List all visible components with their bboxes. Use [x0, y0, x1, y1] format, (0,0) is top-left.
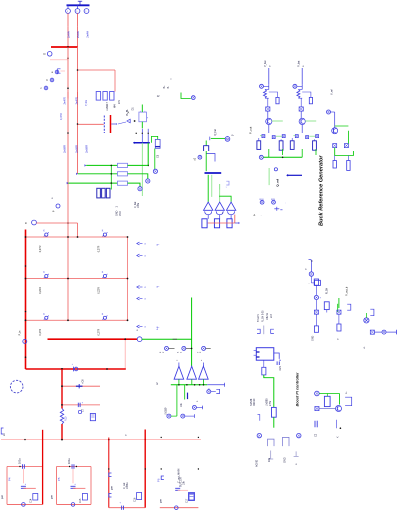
node V2: [146, 179, 150, 183]
node P3V: [56, 204, 60, 208]
wire: [347, 131, 349, 144]
tap mark 3a: [109, 473, 112, 477]
node P_in flag: [32, 220, 37, 225]
svg-text:5: 5: [178, 351, 180, 353]
svg-text:100u: 100u: [138, 202, 140, 208]
resistor Re2: [279, 141, 283, 150]
trim marks: [274, 208, 279, 210]
wire: [207, 175, 209, 202]
wire: [263, 360, 265, 367]
power rail VCC bus bar: [67, 4, 90, 6]
wire: [273, 417, 275, 428]
svg-text:100u: 100u: [68, 458, 71, 464]
capacitor C17: [175, 487, 180, 489]
svg-text:o: o: [145, 256, 147, 258]
svg-text:in: in: [25, 221, 28, 225]
svg-text:o: o: [145, 287, 147, 289]
svg-text:o: o: [125, 434, 128, 436]
wire: [263, 326, 265, 335]
svg-text:0,27R: 0,27R: [97, 245, 100, 252]
junction: [134, 120, 136, 122]
capacitor C14: [21, 485, 26, 487]
wire block2 left rail: [56, 467, 58, 505]
svg-text:o: o: [170, 79, 172, 81]
wire: [335, 148, 354, 156]
wire: [114, 70, 116, 92]
node in: [260, 84, 264, 88]
wire: [264, 375, 274, 408]
svg-text:Q_bat: Q_bat: [214, 129, 217, 136]
wire: [78, 173, 118, 175]
wire: [72, 469, 74, 484]
ground rail thin: [1, 439, 201, 441]
wire: [268, 84, 270, 89]
node N1: [47, 52, 52, 57]
pad P1: [202, 219, 207, 228]
svg-text:C23: C23: [280, 366, 282, 371]
node cmp in 1: [165, 346, 169, 350]
wire: [124, 339, 126, 369]
diode D1: [127, 119, 130, 123]
svg-text:K: K: [43, 272, 45, 274]
svg-text:P_bat: P_bat: [297, 60, 300, 67]
node c5: [181, 414, 185, 418]
svg-text:JP1: JP1: [118, 99, 121, 104]
wire stub: [178, 379, 180, 385]
box C14 label: [33, 494, 38, 501]
wire: [171, 415, 177, 417]
node c4: [167, 414, 171, 418]
node in: [293, 84, 297, 88]
emitter squares: [295, 135, 298, 138]
wire: [219, 196, 231, 202]
resistor R20: [272, 407, 277, 417]
wire block2 top rail: [57, 466, 92, 468]
transistor Q8: [364, 318, 369, 323]
wire block1 left rail: [6, 467, 8, 505]
svg-text:o: o: [305, 268, 308, 270]
capacitor C16: [121, 506, 123, 510]
svg-text:P_in: P_in: [19, 330, 22, 335]
svg-text:pwr: pwr: [160, 499, 163, 503]
wire: [319, 408, 335, 410]
svg-text:P5: P5: [57, 477, 61, 481]
resistor R7: [118, 163, 128, 167]
node w1: [315, 391, 320, 396]
wire: [274, 353, 279, 359]
tap mark 4a: [161, 476, 164, 480]
transistor: [266, 118, 272, 124]
wire: [374, 331, 381, 333]
net label node C: [44, 86, 48, 90]
wire: [184, 385, 186, 400]
node flag X1: [198, 155, 202, 159]
wire: [173, 338, 177, 340]
net arrow gate g2: [137, 254, 140, 257]
node jack sleeve: [225, 137, 230, 142]
wire: [62, 404, 100, 406]
wire: [334, 112, 336, 128]
svg-text:x2: x2: [193, 157, 196, 160]
box C17 label: [189, 494, 194, 501]
junction: [147, 165, 149, 167]
svg-text::: :: [261, 215, 262, 217]
component fuse F1: [204, 146, 209, 151]
wire: [147, 143, 149, 166]
node m1: [309, 272, 313, 276]
wire: [268, 125, 270, 133]
svg-text:C15: C15: [80, 498, 82, 503]
wire: [315, 300, 317, 311]
net arrow gate g1: [137, 242, 140, 245]
junction: [25, 356, 27, 358]
wire: [301, 149, 303, 157]
wire: [141, 122, 143, 129]
node cmp in 2: [182, 346, 186, 350]
wire main input feed: [51, 46, 78, 48]
resistor Re1: [257, 141, 261, 150]
bracket u2: [283, 437, 290, 446]
wire: [77, 26, 79, 47]
svg-text:R2010: R2010: [253, 398, 256, 406]
junction row: [108, 468, 109, 469]
svg-text:LM1117: LM1117: [106, 102, 109, 111]
wire: [268, 168, 270, 185]
resistor Re1: [290, 141, 294, 150]
resistor divider zig: [297, 90, 300, 99]
svg-text:x1: x1: [3, 433, 6, 436]
wire: [315, 314, 317, 326]
svg-text:0,27R: 0,27R: [39, 245, 42, 252]
node cmp in 3: [202, 346, 206, 350]
wire: [206, 154, 215, 162]
net arrow gate g5: [137, 325, 140, 328]
svg-text:AGND: AGND: [256, 460, 259, 467]
svg-text:2x470: 2x470: [63, 96, 67, 104]
resistor R21: [324, 396, 330, 406]
junction: [67, 132, 69, 134]
resistor Re2: [313, 141, 317, 150]
transistor Q9: [336, 406, 342, 412]
svg-text:K: K: [43, 231, 45, 233]
wire: [78, 69, 116, 71]
svg-text:VCC: VCC: [119, 211, 122, 216]
bracket w: [345, 397, 352, 406]
capacitor C11 on rail: [71, 464, 73, 468]
svg-text:o: o: [145, 299, 147, 301]
svg-text:p: p: [52, 210, 55, 212]
pad P2: [214, 219, 219, 228]
svg-text:LM339: LM339: [164, 407, 167, 415]
net arrow gate g3: [137, 286, 140, 289]
capacitor cmp: [187, 393, 189, 400]
node gnd1: [22, 503, 26, 507]
pad P3: [227, 219, 232, 228]
wire: [219, 215, 221, 219]
wire: [67, 99, 69, 185]
diode D5 jack: [226, 202, 235, 210]
diode D2 on bus: [74, 367, 78, 371]
svg-text:o: o: [302, 65, 305, 67]
node flag vr: [327, 110, 331, 114]
junction: [67, 57, 69, 59]
svg-text:A: A: [128, 111, 130, 115]
svg-text:o: o: [201, 359, 203, 361]
gnd u2: [295, 451, 297, 456]
node t2: [297, 433, 301, 437]
svg-text:2xAA: 2xAA: [76, 31, 80, 38]
svg-text:o~: o~: [232, 135, 235, 137]
wire: [268, 149, 270, 157]
svg-text:1: 1: [116, 206, 119, 208]
resistor Rm: [315, 280, 321, 285]
net label node B: [50, 78, 54, 82]
svg-text:7,4m: 7,4m: [84, 99, 88, 106]
wire: [61, 369, 63, 409]
node gnd4: [175, 506, 179, 510]
junction: [67, 87, 69, 89]
wire: [211, 175, 213, 197]
svg-text:C_bat: C_bat: [134, 201, 137, 208]
svg-text:pwr: pwr: [110, 486, 113, 490]
svg-text:12: 12: [157, 96, 160, 98]
capacitor C10 on rail: [21, 464, 23, 468]
svg-text:10k: 10k: [181, 402, 183, 407]
wire feed block1: [42, 430, 44, 467]
node gnd2: [71, 503, 75, 507]
svg-text:+: +: [82, 403, 84, 405]
diode D3 jack: [204, 202, 213, 210]
svg-text:a~: a~: [157, 286, 160, 289]
box C15 label: [82, 494, 87, 501]
capacitor C6: [78, 384, 80, 388]
junction: [77, 69, 79, 71]
wire: [110, 165, 112, 189]
svg-text:o: o: [145, 327, 147, 329]
svg-text:10u: 10u: [268, 457, 271, 462]
wire: [128, 174, 148, 179]
op-amp A3: [199, 366, 209, 379]
resistor Rb1: [314, 279, 318, 285]
wire: [272, 120, 283, 122]
wire: [86, 164, 117, 166]
svg-text:1: 1: [76, 11, 78, 13]
wire: [337, 304, 339, 312]
wire cmp bus: [171, 384, 207, 386]
net arrow out: [235, 222, 238, 224]
node c1: [207, 390, 211, 394]
net arrow gate g4: [137, 297, 140, 300]
battery BT1 negative plate: [103, 116, 105, 134]
tap t: [258, 415, 260, 421]
resistor Rr1: [333, 161, 336, 169]
junction: [77, 123, 79, 125]
svg-text:+: +: [25, 484, 27, 486]
wire: [336, 420, 338, 428]
svg-text:2xAA: 2xAA: [85, 31, 89, 38]
wire: [77, 13, 79, 26]
svg-text:OUT_EN: OUT_EN: [180, 477, 182, 487]
svg-text:6: 6: [160, 351, 162, 353]
bracket mark: [226, 181, 229, 185]
wire: [77, 47, 79, 99]
svg-text:o: o: [51, 197, 54, 199]
svg-text:Buck Reference Generator: Buck Reference Generator: [319, 155, 325, 226]
wire: [62, 385, 100, 387]
wire block1 bottom rail: [7, 503, 43, 505]
wire grid right rail: [127, 237, 129, 320]
capacitor C23: [276, 361, 278, 365]
wire lower bus: [26, 368, 126, 370]
connector J3 pin: [84, 9, 89, 14]
svg-text:o: o: [197, 400, 199, 402]
wire ref bus: [263, 156, 302, 158]
wire: [176, 385, 178, 416]
bracket c1: [216, 389, 219, 393]
svg-text:0,22R: 0,22R: [39, 287, 42, 294]
wire: [234, 215, 236, 223]
supply bar mid: [205, 172, 222, 174]
svg-text:1: 1: [67, 11, 69, 13]
svg-text:pwr: pwr: [51, 495, 54, 499]
svg-text:o: o: [145, 244, 147, 246]
wire: [301, 68, 303, 84]
wire: [211, 137, 225, 139]
svg-text:Boost PI controller: Boost PI controller: [296, 372, 300, 406]
connector J4 pads: [97, 188, 101, 198]
svg-text:b: b: [47, 79, 49, 82]
svg-text:1: 1: [180, 351, 182, 353]
resistor Rr3: [337, 324, 341, 331]
wire: [68, 182, 117, 184]
resistor Rb2: [314, 326, 318, 332]
node t1: [257, 433, 261, 437]
svg-text:100u: 100u: [18, 458, 21, 464]
node batt sense flag: [191, 96, 195, 100]
svg-text:+: +: [74, 484, 76, 486]
svg-text:.o.: .o.: [363, 346, 366, 349]
wire: [300, 111, 302, 118]
node main out: [137, 337, 142, 342]
wire: [205, 141, 207, 146]
svg-text:+: +: [120, 503, 122, 505]
node qr2: [272, 200, 276, 204]
node ref out: [259, 155, 263, 159]
bracket r1: [347, 304, 351, 310]
battery BT1 positive plate: [110, 115, 112, 133]
svg-text:2.5V: 2.5V: [269, 401, 272, 406]
square xr1: [337, 310, 341, 314]
svg-text:o: o: [295, 463, 298, 465]
resistor R9: [118, 181, 128, 185]
junction: [25, 311, 27, 313]
wire: [386, 331, 397, 333]
wire: [36, 222, 77, 224]
wire: [205, 151, 207, 171]
svg-text:C5: C5: [157, 154, 160, 158]
frame ref box: [90, 414, 95, 421]
svg-text:o2: o2: [157, 382, 159, 385]
svg-text:+: +: [72, 363, 74, 365]
svg-text:K: K: [43, 314, 45, 316]
net label node A: [55, 70, 59, 74]
wire block2 bottom rail: [57, 503, 92, 505]
svg-text:R_SH: R_SH: [327, 288, 329, 294]
wire: [128, 183, 141, 186]
net arrow: [67, 182, 69, 184]
capacitor C5: [155, 139, 160, 148]
output block 3: [108, 438, 110, 508]
jumper JP1 pads: [96, 92, 100, 101]
wire: [50, 59, 68, 61]
svg-text:c: c: [41, 87, 43, 90]
junction: [191, 348, 193, 350]
square xr2: [370, 330, 374, 334]
wire: [301, 125, 303, 133]
diode square q7a: [333, 144, 337, 148]
svg-text:7: 7: [197, 351, 199, 353]
svg-text:2xAA: 2xAA: [66, 31, 70, 38]
node b1: [314, 295, 318, 299]
svg-text:-: -: [309, 284, 310, 286]
op-amp A1: [174, 366, 184, 379]
svg-text:A.: A.: [254, 214, 257, 217]
wire grid row 2: [26, 278, 128, 280]
wire: [142, 338, 192, 340]
svg-text:a: a: [52, 71, 54, 74]
bracket t2: [271, 329, 274, 333]
supply flag +BATT: [79, 1, 81, 5]
svg-text:N: N: [44, 52, 46, 56]
op-amp A2: [187, 366, 197, 379]
wire: [208, 222, 235, 224]
capacitor Cb1: [324, 302, 329, 310]
junction: [67, 46, 69, 48]
wire: [67, 185, 69, 321]
svg-text:TLV271: TLV271: [258, 313, 260, 322]
svg-text:2: 2: [163, 351, 165, 353]
square xw: [315, 407, 319, 411]
svg-text:P_bat: P_bat: [264, 60, 267, 67]
wire: [315, 149, 317, 155]
svg-text:B+: B+: [163, 85, 166, 89]
wire batt sense: [181, 93, 191, 99]
wire: [22, 469, 24, 484]
wire: [293, 135, 295, 137]
svg-text:2x68R: 2x68R: [74, 145, 78, 153]
svg-text:a~: a~: [157, 244, 160, 247]
svg-text:C_out: C_out: [123, 482, 126, 489]
connector J2 pin: [75, 9, 80, 14]
junction: [25, 265, 27, 267]
square xb1: [314, 310, 318, 314]
node sense: [78, 410, 81, 413]
emitter squares: [262, 135, 265, 138]
transistor Q7: [332, 128, 338, 134]
wire: [365, 313, 367, 318]
svg-text:o~: o~: [346, 391, 348, 394]
node qref top: [274, 168, 277, 171]
svg-text:P_out: P_out: [249, 126, 253, 134]
wire: [111, 123, 115, 125]
wire block1 right rail: [42, 467, 44, 505]
wire: [77, 92, 79, 99]
wire: [230, 215, 232, 219]
svg-text:o: o: [337, 338, 340, 340]
node r3: [382, 330, 386, 334]
bracket t1: [257, 329, 260, 333]
svg-text:K: K: [102, 231, 104, 233]
